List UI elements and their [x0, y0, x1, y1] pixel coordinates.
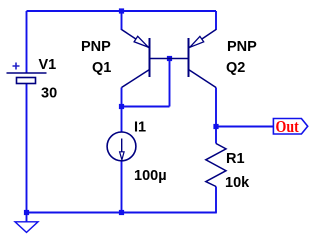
battery V1: [7, 73, 47, 84]
wire R1 top lead: [215, 127, 217, 144]
svg-text:100µ: 100µ: [134, 168, 167, 184]
svg-text:R1: R1: [226, 151, 245, 167]
wire I1 top lead: [121, 107, 123, 133]
wire collector-to-base horizontal: [122, 106, 170, 108]
junction base node: [167, 56, 172, 61]
svg-text:PNP: PNP: [227, 39, 257, 55]
resistor R1: [206, 144, 226, 187]
wire output: [216, 126, 273, 128]
wire R1 bottom lead: [215, 187, 217, 213]
wire Q1 emitter stub: [121, 11, 123, 30]
wire V1 bottom lead: [26, 84, 28, 213]
svg-text:PNP: PNP: [81, 39, 111, 55]
ground: [15, 213, 38, 233]
wire collector-to-base vertical: [169, 59, 171, 107]
wire Q1 collector stub: [121, 88, 123, 107]
wire V1 top lead: [26, 11, 28, 73]
junction Q1 collector node: [119, 104, 124, 109]
wire bottom rail: [27, 212, 217, 214]
junction I1 bottom node: [119, 210, 124, 215]
junction top rail / Q1 emitter: [119, 8, 124, 13]
svg-text:Out: Out: [276, 118, 300, 137]
wire I1 bottom lead: [121, 160, 123, 212]
current source I1: [107, 132, 136, 161]
transistor Q1: [122, 30, 170, 88]
net label Out flag: [273, 119, 307, 135]
junction ground node: [24, 210, 29, 215]
svg-text:Q1: Q1: [92, 60, 111, 76]
svg-text:10k: 10k: [225, 175, 250, 191]
wire Q2 collector stub: [215, 88, 217, 127]
svg-text:30: 30: [41, 86, 57, 102]
svg-text:V1: V1: [39, 57, 57, 73]
wire Q2 emitter stub: [215, 11, 217, 30]
transistor Q2: [170, 30, 217, 88]
battery plus sign: [13, 63, 20, 70]
svg-text:I1: I1: [134, 120, 146, 136]
svg-text:Q2: Q2: [226, 60, 245, 76]
junction Out node: [213, 124, 218, 129]
wire top rail: [27, 10, 217, 12]
